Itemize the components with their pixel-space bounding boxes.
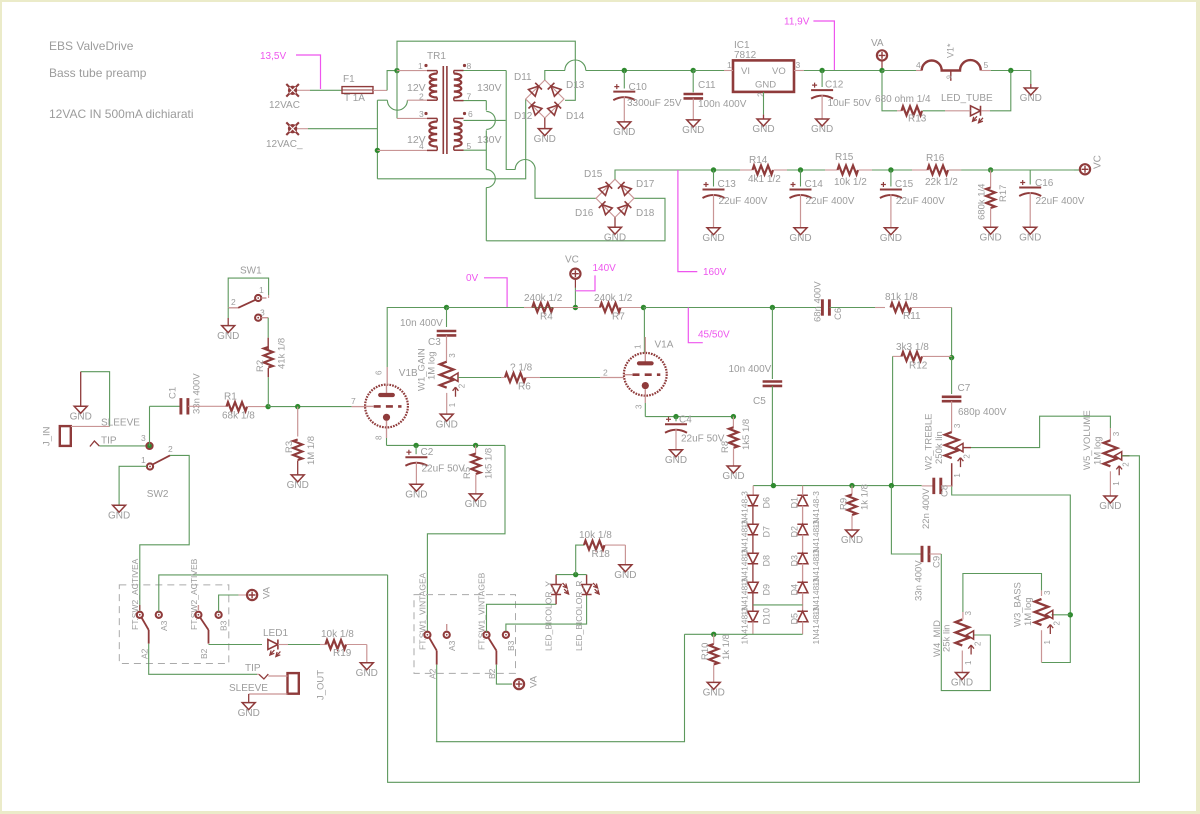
supply terminal VC right — [961, 169, 1079, 171]
J_OUT tip contact — [257, 673, 259, 675]
svg-text:A2: A2 — [428, 668, 438, 679]
svg-text:EBS ValveDrive: EBS ValveDrive — [49, 39, 134, 53]
resistor R10 — [713, 634, 715, 644]
tube V1B — [365, 385, 408, 428]
svg-text:GND: GND — [755, 80, 776, 91]
node C5 branch — [770, 305, 775, 310]
svg-text:1: 1 — [418, 61, 423, 71]
svg-text:1k 1/8: 1k 1/8 — [721, 634, 732, 660]
svg-text:2: 2 — [458, 383, 467, 388]
svg-text:12VAC IN 500mA dichiarati: 12VAC IN 500mA dichiarati — [49, 107, 194, 121]
diode D9 — [748, 582, 759, 593]
svg-text:GND: GND — [1020, 93, 1042, 104]
LED LED_TUBE — [971, 106, 981, 116]
svg-text:2: 2 — [603, 368, 608, 378]
svg-text:41k 1/8: 41k 1/8 — [277, 338, 288, 369]
svg-text:C7: C7 — [958, 383, 971, 394]
tube heater V1* — [882, 70, 916, 72]
diode bridge B2 frame — [596, 179, 634, 217]
svg-text:A2: A2 — [140, 648, 150, 659]
svg-text:R1: R1 — [224, 392, 237, 403]
svg-text:22uF 400V: 22uF 400V — [719, 196, 768, 207]
capacitor C4 — [675, 417, 677, 422]
potentiometer W5_VOLUME — [1104, 440, 1118, 466]
ground W1 — [440, 414, 453, 421]
svg-text:3: 3 — [964, 611, 973, 616]
diode D11 — [528, 83, 541, 96]
wire R12 left to tone bottom — [892, 356, 894, 485]
node C5 bottom — [771, 483, 776, 488]
resistor R11 — [891, 303, 912, 312]
svg-text:6: 6 — [468, 109, 473, 119]
svg-text:2: 2 — [963, 454, 972, 459]
TR1 primary winding 3-4 — [429, 122, 437, 147]
node R10 — [711, 632, 716, 637]
diode D13 — [548, 83, 561, 96]
svg-text:C12: C12 — [825, 80, 844, 91]
svg-text:Bass tube preamp: Bass tube preamp — [49, 66, 147, 80]
svg-text:D6: D6 — [761, 497, 771, 509]
wire V1A cathode — [644, 403, 646, 417]
tone stack bottom wire — [753, 485, 921, 487]
svg-text:8: 8 — [375, 435, 384, 440]
svg-text:TIP: TIP — [101, 436, 117, 447]
svg-text:3300uF 25V: 3300uF 25V — [627, 98, 682, 109]
switch SW2 — [146, 443, 152, 449]
svg-text:R16: R16 — [926, 153, 945, 164]
capacitor C11 — [692, 71, 694, 93]
svg-text:W3_BASS: W3_BASS — [1013, 582, 1024, 627]
diode D14 — [548, 102, 561, 115]
ground W4 — [956, 673, 969, 680]
potentiometer W1_GAIN — [440, 362, 454, 388]
ground R18 — [624, 545, 626, 565]
svg-text:VC: VC — [1093, 155, 1104, 169]
svg-text:C2: C2 — [421, 447, 434, 458]
TR1 primary winding 1-2 — [430, 74, 437, 98]
svg-text:GND: GND — [108, 510, 130, 521]
node C10 — [622, 68, 627, 73]
svg-text:GND: GND — [703, 688, 725, 699]
wire secondary lower to bridge2 right corner — [486, 198, 665, 241]
svg-text:3k3 1/8: 3k3 1/8 — [896, 342, 929, 353]
diode D4 — [797, 582, 808, 593]
node R18 to LEDs — [573, 572, 578, 577]
svg-text:R9: R9 — [839, 498, 850, 510]
svg-text:3: 3 — [953, 423, 962, 428]
resistor R8 — [732, 417, 734, 428]
wire cathode line — [387, 444, 506, 446]
wire fuse to transformer pin 1 — [373, 89, 387, 91]
wire V1B cathode — [386, 438, 388, 445]
svg-text:1M 1/8: 1M 1/8 — [306, 436, 317, 465]
node R9 — [849, 483, 854, 488]
capacitor C7 — [951, 358, 953, 394]
voltage label 140V — [575, 275, 595, 290]
svg-text:12VAC_: 12VAC_ — [266, 139, 303, 150]
svg-text:R6: R6 — [518, 382, 531, 393]
wire heater LED loop — [882, 71, 897, 111]
svg-text:130V: 130V — [477, 134, 502, 146]
capacitor C12 — [821, 71, 823, 88]
wire R11 to junction — [951, 308, 953, 358]
svg-text:W2_TREBLE: W2_TREBLE — [924, 414, 935, 471]
svg-text:1M log: 1M log — [1093, 436, 1104, 465]
wire pin4 — [377, 149, 427, 151]
svg-text:160V: 160V — [703, 267, 727, 278]
wire C9 branch — [891, 486, 921, 554]
svg-text:? 1/8: ? 1/8 — [510, 363, 533, 374]
svg-text:1: 1 — [953, 473, 962, 478]
svg-text:1: 1 — [1043, 640, 1052, 645]
node R5 — [473, 443, 478, 448]
svg-text:22n 400V: 22n 400V — [921, 488, 932, 529]
supply VA top — [877, 50, 887, 60]
svg-text:R5: R5 — [462, 467, 473, 479]
diode D6 — [748, 495, 759, 506]
svg-text:D4: D4 — [790, 584, 800, 596]
capacitor C16 — [1029, 170, 1031, 185]
svg-text:GND: GND — [811, 124, 833, 135]
svg-text:3: 3 — [419, 109, 424, 119]
svg-text:1: 1 — [727, 60, 732, 70]
LED LED_BICOLOR_R — [586, 575, 588, 585]
svg-text:J_OUT: J_OUT — [316, 670, 327, 700]
svg-text:3: 3 — [796, 60, 801, 70]
voltage label 0V — [484, 278, 507, 307]
wire ACTIVEA lever to out tip — [149, 644, 257, 675]
svg-text:C8: C8 — [940, 485, 951, 497]
wire VINTAGEB pole to LED_Y — [487, 604, 557, 631]
node junction TR1 pin1 — [394, 68, 399, 73]
wire IC1 pin3 out — [794, 70, 804, 72]
resistor R12 — [893, 355, 902, 357]
svg-text:13,5V: 13,5V — [260, 51, 286, 62]
svg-text:25k lin: 25k lin — [942, 625, 953, 652]
node C14 — [798, 167, 803, 172]
wire R6 to V1A grid — [540, 377, 600, 379]
resistor R3 — [297, 407, 299, 437]
wire B3 to LED_R cathode — [506, 595, 587, 632]
node heater gnd branch — [1008, 68, 1013, 73]
svg-text:D15: D15 — [584, 169, 603, 180]
svg-text:GND: GND — [979, 232, 1001, 243]
node W3 wiper junction — [1068, 612, 1073, 617]
svg-text:22k 1/2: 22k 1/2 — [925, 177, 958, 188]
resistor R2 — [267, 338, 269, 350]
svg-text:VA: VA — [871, 38, 884, 49]
wire R18 left — [576, 545, 584, 575]
wire pin3 — [397, 117, 427, 119]
svg-text:10k 1/2: 10k 1/2 — [834, 177, 867, 188]
svg-text:A3: A3 — [159, 620, 169, 631]
svg-text:0V: 0V — [466, 273, 479, 284]
svg-text:R8: R8 — [720, 441, 731, 453]
svg-text:1N4148-3: 1N4148-3 — [739, 607, 749, 645]
svg-text:GND: GND — [841, 535, 863, 546]
capacitor C5 — [771, 308, 773, 380]
svg-text:SW2: SW2 — [147, 489, 169, 500]
diode D18 — [618, 201, 631, 214]
resistor R13 — [897, 110, 902, 112]
wire SW2 throw1 to ground — [119, 466, 147, 505]
svg-text:LED1: LED1 — [263, 628, 288, 639]
capacitor C2 — [415, 445, 417, 454]
svg-text:D7: D7 — [761, 526, 771, 538]
svg-text:D8: D8 — [761, 555, 771, 567]
svg-text:D3: D3 — [790, 555, 800, 567]
wire bridge1 top to rail — [545, 71, 565, 81]
plate rail first stage — [447, 307, 575, 309]
wire cathode feedback to vintage switch — [427, 445, 505, 631]
svg-text:TIP: TIP — [245, 663, 261, 674]
svg-text:C16: C16 — [1035, 178, 1054, 189]
ground R19 — [366, 645, 368, 663]
wire W2 pin1 to C8 node — [951, 463, 953, 486]
J_OUT sleeve to ground — [249, 693, 288, 695]
capacitor C9 — [921, 546, 924, 562]
svg-text:10n 400V: 10n 400V — [729, 364, 772, 375]
svg-text:68k 1/8: 68k 1/8 — [222, 411, 255, 422]
ground SW1 — [227, 308, 229, 318]
svg-text:VA: VA — [529, 675, 540, 688]
svg-text:9: 9 — [947, 75, 954, 79]
svg-text:GND: GND — [465, 499, 487, 510]
svg-text:6: 6 — [375, 370, 384, 375]
TR1 secondary winding 6-5 — [454, 122, 462, 147]
voltage label 11,9V — [813, 21, 834, 70]
svg-text:D16: D16 — [575, 208, 594, 219]
resistor R5 — [475, 445, 477, 453]
svg-text:33n 400V: 33n 400V — [914, 560, 925, 601]
svg-text:1M log: 1M log — [1023, 597, 1034, 626]
wire VINTAGEB lever to VA — [496, 665, 512, 685]
svg-text:SLEEVE: SLEEVE — [101, 418, 140, 429]
svg-text:GND: GND — [70, 412, 92, 423]
svg-text:3: 3 — [141, 433, 146, 443]
svg-text:8: 8 — [467, 61, 472, 71]
svg-text:FT.SW2_ACTIVEA: FT.SW2_ACTIVEA — [130, 558, 140, 630]
svg-text:680 ohm 1/4: 680 ohm 1/4 — [875, 94, 931, 105]
ground bridge2 — [614, 217, 616, 227]
svg-text:68n 400V: 68n 400V — [813, 281, 824, 322]
resistor R19 — [320, 644, 326, 646]
svg-text:1: 1 — [141, 455, 146, 465]
svg-text:D11: D11 — [514, 72, 532, 83]
svg-text:V1*: V1* — [946, 43, 956, 58]
svg-text:R10: R10 — [700, 643, 711, 660]
svg-text:C6: C6 — [833, 308, 844, 320]
svg-text:5: 5 — [984, 60, 989, 70]
node R8 — [731, 414, 736, 419]
svg-text:GND: GND — [752, 124, 774, 135]
pad 12VAC — [286, 84, 299, 97]
svg-text:LED_BICOLOR_Y: LED_BICOLOR_Y — [544, 581, 554, 651]
svg-text:SLEEVE: SLEEVE — [229, 683, 268, 694]
diode D10 — [748, 611, 759, 622]
svg-text:1: 1 — [448, 402, 457, 407]
svg-text:R15: R15 — [835, 152, 854, 163]
clipper bottom wire — [685, 633, 803, 635]
svg-text:22uF 50V: 22uF 50V — [422, 464, 466, 475]
wire W2 wiper to W5 — [1122, 455, 1130, 457]
potentiometer W3_BASS — [1041, 590, 1043, 596]
diode D8 — [748, 553, 759, 564]
wire W3 wiper — [1052, 614, 1071, 616]
diode D16 — [599, 201, 612, 214]
svg-text:5: 5 — [467, 141, 472, 151]
svg-text:V1B: V1B — [399, 368, 418, 379]
svg-text:R13: R13 — [908, 114, 927, 125]
svg-text:B2: B2 — [199, 648, 209, 659]
svg-text:GND: GND — [722, 471, 744, 482]
svg-text:33n 400V: 33n 400V — [192, 373, 203, 414]
svg-text:10n 400V: 10n 400V — [400, 318, 443, 329]
svg-text:140V: 140V — [593, 263, 617, 274]
switch SW1 throw 3 — [255, 315, 261, 321]
svg-text:FT.SW2_ACTIVEB: FT.SW2_ACTIVEB — [189, 558, 199, 630]
svg-text:C11: C11 — [698, 80, 716, 91]
ground heater — [1030, 71, 1032, 85]
pad 12VAC_ — [286, 122, 299, 135]
svg-text:1: 1 — [964, 660, 973, 665]
diode D7 — [748, 524, 759, 535]
svg-text:GND: GND — [682, 125, 704, 136]
svg-text:TR1: TR1 — [427, 51, 446, 62]
LED LED1 — [268, 640, 278, 650]
node VC rail — [573, 305, 578, 310]
diode D3 — [797, 553, 808, 564]
node C11 — [691, 68, 696, 73]
resistor R1 — [227, 402, 248, 411]
svg-text:C3: C3 — [428, 337, 441, 348]
wire secondary pin7+5 net — [464, 100, 487, 102]
svg-text:130V: 130V — [477, 82, 502, 94]
resistor R9 — [851, 486, 853, 495]
capacitor C15 — [890, 170, 892, 187]
wire LED to rail — [990, 71, 1011, 111]
wire 12VAC_ to primary pins 2 and 4 — [297, 128, 308, 130]
TR1 secondary winding 8-7 — [454, 74, 462, 98]
node R3 — [295, 404, 300, 409]
svg-text:240k 1/2: 240k 1/2 — [524, 293, 563, 304]
svg-text:B3: B3 — [506, 640, 516, 651]
svg-text:GND: GND — [356, 668, 378, 679]
svg-text:GND: GND — [287, 480, 309, 491]
capacitor C1 — [149, 406, 151, 446]
svg-text:D1: D1 — [790, 497, 800, 509]
wire tip to SW2 pole — [99, 445, 146, 447]
svg-text:45/50V: 45/50V — [698, 330, 730, 341]
svg-text:11,9V: 11,9V — [784, 17, 810, 28]
svg-text:7: 7 — [351, 396, 356, 406]
wire ACTIVEB lever to LED1 — [209, 644, 263, 646]
svg-text:1: 1 — [259, 285, 264, 295]
diode D1 — [797, 495, 808, 506]
wire +12V rail — [565, 60, 586, 71]
svg-text:SW1: SW1 — [240, 266, 262, 277]
wire clipper to output tip — [436, 634, 685, 741]
svg-text:GND: GND — [238, 708, 260, 719]
svg-text:C13: C13 — [718, 179, 737, 190]
wire pin5 stub — [464, 149, 487, 151]
capacitor C6 — [821, 307, 823, 309]
wire W2/C8 output to bass/volume — [952, 487, 1071, 663]
svg-text:1k 1/8: 1k 1/8 — [860, 484, 871, 510]
wire bridge2 top to HV rail — [615, 170, 753, 179]
svg-text:R11: R11 — [903, 311, 921, 322]
svg-text:1N4148-3: 1N4148-3 — [811, 607, 821, 645]
wire SW2 throw2 to footswitch ACTIVEA pole — [140, 455, 189, 611]
svg-text:GND: GND — [1099, 501, 1121, 512]
resistor R16 — [912, 169, 928, 171]
potentiometer W4_MID — [962, 594, 964, 612]
svg-text:W5_VOLUME: W5_VOLUME — [1082, 410, 1093, 470]
svg-text:J_IN: J_IN — [42, 426, 53, 446]
jack J_IN — [60, 426, 71, 446]
svg-text:680k 1/4: 680k 1/4 — [977, 184, 988, 220]
supply VC mid — [570, 269, 580, 279]
svg-text:GND: GND — [951, 678, 973, 689]
wire top loop primary — [397, 41, 575, 100]
wire IC1 gnd pin2 — [763, 92, 765, 115]
wire ACTIVEB throw B3 to VA — [219, 595, 239, 612]
svg-text:D9: D9 — [761, 584, 771, 596]
wire primary pin3 riser — [396, 71, 398, 119]
svg-text:R18: R18 — [592, 549, 611, 560]
svg-text:F1: F1 — [343, 74, 355, 85]
supply VA vintage — [514, 679, 524, 689]
node C3 top — [444, 305, 449, 310]
svg-text:GND: GND — [702, 233, 724, 244]
svg-text:GND: GND — [217, 331, 239, 342]
resistor R6 — [501, 377, 505, 379]
wire grid line V1B — [268, 406, 352, 408]
svg-text:D2: D2 — [790, 526, 800, 538]
svg-text:10k 1/8: 10k 1/8 — [579, 530, 612, 541]
svg-text:VI: VI — [741, 66, 750, 77]
resistor R18 — [584, 541, 605, 550]
svg-text:D17: D17 — [636, 179, 655, 190]
svg-text:2: 2 — [1053, 621, 1062, 626]
voltage label 160V — [678, 170, 697, 272]
node C4 — [673, 414, 678, 419]
wire LED tops — [556, 574, 587, 576]
svg-text:GND: GND — [1019, 232, 1041, 243]
wire pin2 with hop — [377, 99, 387, 101]
svg-text:250k lin: 250k lin — [934, 431, 945, 464]
wire W5 wiper to bottom rail — [388, 456, 1140, 783]
svg-text:3: 3 — [1112, 431, 1121, 436]
diode D5 — [797, 611, 808, 622]
svg-text:B2: B2 — [487, 668, 497, 679]
LED LED_BICOLOR_Y — [555, 575, 557, 585]
wire pin1 — [397, 70, 427, 72]
svg-text:D18: D18 — [636, 208, 655, 219]
wire ACTIVEA throw A3 riser — [159, 575, 388, 612]
svg-text:D14: D14 — [566, 111, 585, 122]
svg-text:680p 400V: 680p 400V — [958, 407, 1007, 418]
resistor R7 — [575, 307, 600, 309]
svg-text:10k 1/8: 10k 1/8 — [321, 629, 354, 640]
wire secondary pin8 net — [464, 70, 507, 72]
svg-text:VA: VA — [262, 586, 273, 599]
regulator IC1 7812 — [733, 60, 794, 92]
dashed enclosure FT.SW2 ACTIVE — [119, 585, 229, 664]
svg-text:2: 2 — [973, 641, 982, 646]
svg-text:4k1 1/2: 4k1 1/2 — [748, 174, 781, 185]
resistor R14 — [740, 169, 753, 171]
